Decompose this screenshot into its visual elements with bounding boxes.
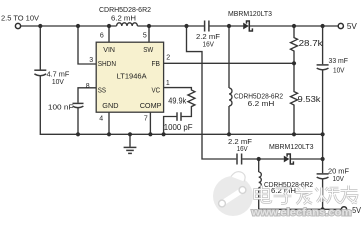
svg-text:6.2 mH: 6.2 mH xyxy=(111,13,136,22)
svg-text:10V: 10V xyxy=(333,66,345,75)
svg-text:GND: GND xyxy=(102,101,119,110)
svg-text:www.elecfans.com: www.elecfans.com xyxy=(250,207,351,219)
svg-text:MBRM120LT3: MBRM120LT3 xyxy=(269,142,314,151)
svg-text:4: 4 xyxy=(99,115,103,122)
svg-text:100 nF: 100 nF xyxy=(48,103,74,112)
svg-text:LT1946A: LT1946A xyxy=(117,71,148,80)
svg-text:7: 7 xyxy=(144,115,148,122)
svg-text:SHDN: SHDN xyxy=(98,59,116,68)
svg-text:2.5 TO 10V: 2.5 TO 10V xyxy=(1,14,39,23)
svg-text:1: 1 xyxy=(166,80,170,87)
svg-text:FB: FB xyxy=(152,59,161,68)
svg-text:10V: 10V xyxy=(333,174,345,183)
svg-text:49.9k: 49.9k xyxy=(168,97,187,106)
svg-text:16V: 16V xyxy=(237,144,248,153)
svg-text:10V: 10V xyxy=(52,77,64,86)
svg-text:9.53k: 9.53k xyxy=(298,95,322,104)
svg-text:3: 3 xyxy=(89,57,93,64)
svg-text:8: 8 xyxy=(86,83,90,90)
svg-text:5: 5 xyxy=(143,32,147,39)
svg-text:2: 2 xyxy=(166,54,170,61)
svg-text:SW: SW xyxy=(143,45,154,54)
svg-text:5V: 5V xyxy=(347,22,358,31)
svg-text:VC: VC xyxy=(152,86,161,95)
svg-text:6.2 mH: 6.2 mH xyxy=(248,99,275,108)
svg-text:MBRM120LT3: MBRM120LT3 xyxy=(228,9,272,18)
svg-text:6: 6 xyxy=(100,32,104,39)
svg-text:VIN: VIN xyxy=(103,45,115,54)
svg-text:SS: SS xyxy=(98,86,106,95)
svg-text:16V: 16V xyxy=(203,39,215,48)
svg-text:28.7k: 28.7k xyxy=(299,39,324,48)
svg-text:COMP: COMP xyxy=(140,101,162,110)
svg-text:33 mF: 33 mF xyxy=(329,56,349,65)
svg-text:1000 pF: 1000 pF xyxy=(164,123,193,132)
